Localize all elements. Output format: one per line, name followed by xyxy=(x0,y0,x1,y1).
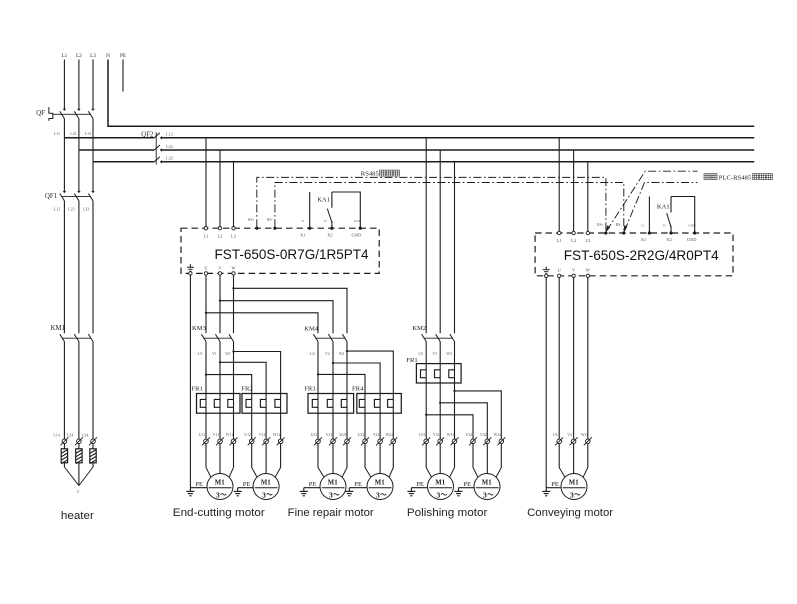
wire branch W to KM4 xyxy=(234,288,348,333)
thermal relay FR1 xyxy=(406,357,461,383)
svg-text:V4: V4 xyxy=(567,433,572,437)
motor M6 polishing M1 3-phase xyxy=(474,474,500,500)
svg-text:N: N xyxy=(106,53,110,59)
disconnect terminal W12 (end-cutting M2) xyxy=(273,433,285,445)
svg-text:V1: V1 xyxy=(212,352,217,356)
PE earth connection xyxy=(407,481,428,496)
svg-text:V2: V2 xyxy=(325,352,330,356)
junction polishing V to M6 branch xyxy=(439,402,441,404)
wire L2 feeder top xyxy=(78,60,80,111)
svg-text:M1: M1 xyxy=(569,480,579,487)
svg-text:W22: W22 xyxy=(386,433,393,437)
wires into motor M3 fine-repair xyxy=(318,444,347,478)
svg-text:V22: V22 xyxy=(373,433,380,437)
relay contact KA1 on U1 xyxy=(310,192,361,228)
svg-text:M1: M1 xyxy=(215,480,225,487)
contactor KM2 xyxy=(412,325,454,342)
wire QF to bus junctions xyxy=(64,119,93,162)
inverter U2 FST-650S-2R2G/4R0PT4 enclosure xyxy=(535,233,733,276)
svg-text:QF: QF xyxy=(36,110,45,117)
svg-text:PE: PE xyxy=(416,481,424,488)
motor M7 conveying M1 3-phase xyxy=(561,474,587,500)
svg-text:L12: L12 xyxy=(166,132,173,137)
svg-text:KM4: KM4 xyxy=(304,326,319,333)
terminal U1 PE with earth symbol xyxy=(187,264,194,275)
junction KM4-W to FR4 branch xyxy=(346,350,348,352)
label RS485 cable xyxy=(361,170,400,177)
terminal U1 L3 xyxy=(232,227,235,230)
wire FR3 outputs down xyxy=(318,413,347,439)
bus L2 right segment xyxy=(161,149,755,151)
terminal U2 V xyxy=(572,274,575,277)
svg-text:X1: X1 xyxy=(300,232,305,237)
svg-text:V31: V31 xyxy=(433,433,440,437)
disconnect terminal U21 (fine repair M3) xyxy=(311,433,322,445)
svg-text:U12: U12 xyxy=(244,433,251,437)
junction U1-W to KM4 branch xyxy=(232,287,234,289)
svg-text:L23: L23 xyxy=(68,206,74,211)
svg-text:PE: PE xyxy=(354,481,362,488)
wire branch KM3 V to FR2 xyxy=(220,362,266,393)
svg-text:W3: W3 xyxy=(446,352,452,356)
disconnect terminal V32 (polishing M6) xyxy=(480,433,491,445)
disconnect terminal V31 (polishing M5) xyxy=(433,433,444,445)
svg-text:W4: W4 xyxy=(581,433,587,437)
svg-text:W1: W1 xyxy=(225,352,231,356)
svg-text:V3: V3 xyxy=(432,352,437,356)
svg-text:U32: U32 xyxy=(466,433,473,437)
svg-text:L3: L3 xyxy=(90,53,96,59)
svg-text:V11: V11 xyxy=(213,433,219,437)
svg-text:L2: L2 xyxy=(76,53,82,59)
terminal U1 GND xyxy=(359,227,362,230)
junction KM3-U to FR2 branch xyxy=(205,373,207,375)
svg-text:QF2: QF2 xyxy=(141,131,154,138)
svg-text:L31: L31 xyxy=(85,131,91,136)
svg-text:W12: W12 xyxy=(273,433,280,437)
motor M2 end-cutting M1 3-phase xyxy=(253,474,279,500)
svg-text:L3: L3 xyxy=(585,238,591,243)
svg-text:V12: V12 xyxy=(259,433,266,437)
PE earth connection xyxy=(455,481,475,496)
terminal U1 L2 xyxy=(218,227,221,230)
svg-text:X2: X2 xyxy=(327,232,332,237)
svg-text:U11: U11 xyxy=(199,433,205,437)
disconnect terminal U32 (polishing M6) xyxy=(466,433,477,445)
svg-text:QF1: QF1 xyxy=(45,193,57,200)
wire bus L1 drop to U1 L1 xyxy=(205,138,207,228)
svg-text:M1: M1 xyxy=(328,480,338,487)
wire branch KM4 W to FR4 xyxy=(347,351,393,393)
thermal relay FR3 xyxy=(304,385,353,413)
terminal U1 W xyxy=(232,272,235,275)
svg-text:L2: L2 xyxy=(571,238,576,243)
svg-text:L14: L14 xyxy=(53,432,59,437)
wire bus L3 drop to U2 L3 xyxy=(587,162,589,233)
wire bus L1 drop to KM2 xyxy=(425,138,427,333)
wire U1 V output xyxy=(219,275,221,333)
svg-text:FST-650S-2R2G/4R0PT4: FST-650S-2R2G/4R0PT4 xyxy=(564,247,719,263)
wire bus L2 drop to U1 L2 xyxy=(219,150,221,228)
svg-text:W11: W11 xyxy=(226,433,233,437)
wire branch polishing U to motor M6 xyxy=(426,415,473,439)
wire branch polishing V to motor M6 xyxy=(440,403,487,439)
disconnect terminal V11 (end-cutting M1) xyxy=(213,433,224,445)
wire L1 to QF1 xyxy=(63,138,65,193)
svg-text:U: U xyxy=(77,490,80,494)
disconnect terminal U22 (fine repair M4) xyxy=(358,433,369,445)
bus L1 right segment xyxy=(161,137,755,139)
disconnect terminal W4 (conveying M7) xyxy=(581,433,592,445)
svg-text:M1: M1 xyxy=(482,480,492,487)
svg-text:L21: L21 xyxy=(70,131,76,136)
svg-text:Polishing motor: Polishing motor xyxy=(407,507,488,519)
arrow into U2 RS+ xyxy=(606,225,610,232)
svg-text:RS-: RS- xyxy=(616,223,622,227)
thermal relay FR2 xyxy=(241,385,287,413)
wire KM1 to heater connectors xyxy=(64,342,93,439)
junction polishing U to M6 branch xyxy=(425,414,427,416)
terminal U1 U xyxy=(204,272,207,275)
wire RS485 tap B to PLC (dash-dot) xyxy=(625,183,698,231)
svg-text:KA1: KA1 xyxy=(657,203,670,210)
disconnect terminal V21 (fine repair M3) xyxy=(326,433,337,445)
wire polishing FR outputs down xyxy=(426,383,454,439)
wire U2 outputs down xyxy=(559,278,588,439)
svg-text:RS+: RS+ xyxy=(248,218,254,222)
wire branch KM4 V to FR4 xyxy=(333,363,380,394)
wires into motor M2 end-cutting xyxy=(252,444,281,478)
svg-text:L13: L13 xyxy=(54,206,60,211)
wires into motor M7 conveying xyxy=(559,444,588,478)
svg-text:L11: L11 xyxy=(54,131,60,136)
disconnect terminal U4 (conveying M7) xyxy=(553,433,563,445)
svg-text:3: 3 xyxy=(570,491,574,500)
svg-text:L1: L1 xyxy=(557,238,562,243)
terminal U2 L2 xyxy=(572,231,575,234)
disconnect terminal W11 (end-cutting M1) xyxy=(226,433,238,445)
svg-text:M1: M1 xyxy=(261,480,271,487)
relay contact KA1 on U2 xyxy=(649,197,694,234)
junction KM3-V to FR2 branch xyxy=(219,361,221,363)
svg-text:3: 3 xyxy=(376,491,380,500)
wire FR2 outputs down xyxy=(252,413,281,439)
disconnect terminal W31 (polishing M5) xyxy=(447,433,459,445)
wire L2 to QF1 xyxy=(78,150,80,193)
disconnect terminal U11 (end-cutting M1) xyxy=(199,433,210,445)
svg-text:FR1: FR1 xyxy=(192,385,203,392)
terminal U2 RS- xyxy=(622,231,625,234)
wire U1 U output xyxy=(205,275,207,333)
wire branch KM4 U to FR4 xyxy=(318,374,365,393)
inverter U1 FST-650S-0R7G/1R5PT4 enclosure xyxy=(181,228,379,273)
wire branch KM3 U to FR2 xyxy=(206,375,252,394)
wire L1 feeder top xyxy=(63,60,65,111)
svg-text:V32: V32 xyxy=(480,433,487,437)
wire bus L2 drop to U2 L2 xyxy=(573,150,575,233)
PE earth connection xyxy=(300,481,321,496)
wire L3 feeder top xyxy=(92,60,94,111)
wire L3 to QF1 xyxy=(92,162,94,193)
circuit breaker QF xyxy=(36,107,94,121)
wires into motor M1 end-cutting xyxy=(206,444,234,478)
motor M3 fine-repair M1 3-phase xyxy=(320,474,346,500)
motor M5 polishing M1 3-phase xyxy=(428,474,454,500)
svg-text:Fine repair motor: Fine repair motor xyxy=(288,507,374,519)
svg-text:FST-650S-0R7G/1R5PT4: FST-650S-0R7G/1R5PT4 xyxy=(215,246,369,262)
svg-text:PE: PE xyxy=(309,481,317,488)
svg-text:L2: L2 xyxy=(218,233,223,238)
svg-text:PLC-RS485: PLC-RS485 xyxy=(719,174,752,181)
svg-text:RS-: RS- xyxy=(267,218,273,222)
disconnect terminal U12 (end-cutting M2) xyxy=(244,433,255,445)
svg-text:W21: W21 xyxy=(339,433,346,437)
svg-text:U1: U1 xyxy=(198,352,203,356)
disconnect terminal W21 (fine repair M3) xyxy=(339,433,351,445)
wire KM2 outputs to FR1 polishing xyxy=(426,342,454,364)
svg-text:W32: W32 xyxy=(494,433,501,437)
terminal U1 V xyxy=(218,272,221,275)
contactor KM3 xyxy=(192,325,234,342)
svg-text:End-cutting motor: End-cutting motor xyxy=(173,507,265,519)
svg-text:L32: L32 xyxy=(166,156,173,161)
PE earth connection xyxy=(234,481,254,496)
svg-text:FR4: FR4 xyxy=(352,385,364,392)
disconnect terminal V22 (fine repair M4) xyxy=(373,433,384,445)
terminal U2 X2 xyxy=(669,231,672,234)
disconnect terminal V4 (conveying M7) xyxy=(567,433,577,445)
svg-text:U31: U31 xyxy=(419,433,426,437)
circuit breaker QF2 xyxy=(141,131,162,164)
svg-text:U21: U21 xyxy=(311,433,318,437)
contactor KM4 xyxy=(304,326,347,342)
svg-text:FR2: FR2 xyxy=(241,385,252,392)
thermal relay FR4 xyxy=(352,385,401,413)
terminal U1 RS- xyxy=(273,227,276,230)
disconnect terminal U31 (polishing M5) xyxy=(419,433,430,445)
svg-text:RS+: RS+ xyxy=(597,223,603,227)
svg-text:M1: M1 xyxy=(375,480,385,487)
svg-text:GND: GND xyxy=(687,237,697,242)
terminal U2 RS+ xyxy=(604,231,607,234)
svg-text:31: 31 xyxy=(641,224,645,228)
bus L1 left segment xyxy=(64,137,154,139)
junction polishing W to M6 branch xyxy=(453,390,455,392)
wire RS485 A U1 to U2 (dash-dot) xyxy=(257,177,606,231)
svg-text:31: 31 xyxy=(301,219,305,223)
svg-text:L1: L1 xyxy=(62,53,68,59)
wire bus L3 drop to KM2 xyxy=(454,162,456,333)
svg-text:FR1: FR1 xyxy=(406,357,417,364)
svg-text:heater: heater xyxy=(61,510,94,522)
svg-text:FR3: FR3 xyxy=(304,385,316,392)
terminal U1 L1 xyxy=(204,227,207,230)
heater elements EH xyxy=(61,444,96,464)
svg-text:V21: V21 xyxy=(326,433,333,437)
terminal U2 L1 xyxy=(558,231,561,234)
svg-text:PE: PE xyxy=(195,481,203,488)
wire branch KM3 W to FR2 xyxy=(234,352,281,394)
svg-text:L22: L22 xyxy=(166,144,173,149)
bus L2 left segment xyxy=(79,149,154,151)
wire PE stub xyxy=(122,60,124,92)
wire KM4 outputs to FR3 xyxy=(318,342,347,394)
svg-text:RS485: RS485 xyxy=(361,170,380,177)
wire FR4 outputs down xyxy=(365,413,393,439)
svg-text:L34: L34 xyxy=(82,432,88,437)
wires into motor M6 polishing xyxy=(473,444,501,478)
bus L3 right segment xyxy=(161,161,755,163)
svg-text:Conveying motor: Conveying motor xyxy=(527,507,613,519)
wire bus L3 drop to U1 L3 xyxy=(233,162,235,228)
svg-text:L3: L3 xyxy=(231,233,237,238)
wire bus L2 drop to KM2 xyxy=(439,150,441,333)
wire heater star point xyxy=(64,463,93,486)
svg-text:PE: PE xyxy=(243,481,251,488)
svg-text:3: 3 xyxy=(262,491,266,500)
bus L3 left segment xyxy=(93,161,154,163)
svg-text:M1: M1 xyxy=(435,480,445,487)
svg-text:3: 3 xyxy=(436,491,440,500)
wire KM3 outputs to FR1 xyxy=(206,342,234,394)
wire RS485 B U1 to U2 (dash-dot) xyxy=(275,183,624,232)
svg-text:W2: W2 xyxy=(339,352,345,356)
svg-text:KM1: KM1 xyxy=(51,325,65,332)
svg-text:PE: PE xyxy=(551,481,559,488)
terminal U1 RS+ xyxy=(255,227,258,230)
wires into motor M4 fine-repair xyxy=(365,444,393,478)
svg-text:L33: L33 xyxy=(83,206,89,211)
svg-text:3: 3 xyxy=(216,491,220,500)
junction U1-V to KM4 branch xyxy=(219,300,221,302)
wires into motor M5 polishing xyxy=(426,444,454,478)
svg-text:U22: U22 xyxy=(358,433,365,437)
terminal U2 GND xyxy=(693,231,696,234)
thermal relay FR1 xyxy=(192,385,241,413)
wire U1 W output xyxy=(233,275,235,333)
svg-text:PE: PE xyxy=(120,53,126,59)
arrow into U2 RS- xyxy=(624,225,628,232)
junction KM4-V to FR4 branch xyxy=(332,362,334,364)
wire branch polishing W to motor M6 xyxy=(455,391,502,439)
terminal U2 W xyxy=(586,274,589,277)
svg-text:33: 33 xyxy=(323,219,327,223)
wire U2 PE down to conveying motor xyxy=(545,278,547,488)
wire QF1 to KM1 xyxy=(64,201,93,333)
wire FR1 outputs down xyxy=(206,413,234,439)
svg-text:L24: L24 xyxy=(67,432,73,437)
terminal U1 X2 xyxy=(330,227,333,230)
PE earth connection xyxy=(542,481,561,496)
svg-text:X1: X1 xyxy=(641,237,646,242)
svg-text:3: 3 xyxy=(329,491,333,500)
wire branch V to KM4 xyxy=(220,301,333,334)
junction U1-U to KM4 branch xyxy=(205,312,207,314)
svg-text:PE: PE xyxy=(464,481,472,488)
wire U1 PE down to end-cutting motor M1 xyxy=(189,275,191,488)
wire bus L1 drop to U2 L1 xyxy=(558,138,560,233)
wire RS485 tap A to PLC (dash-dot) xyxy=(607,171,698,231)
disconnect terminal W32 (polishing M6) xyxy=(494,433,506,445)
terminal U2 X1 xyxy=(648,231,651,234)
svg-text:KA1: KA1 xyxy=(317,196,330,203)
terminal U1 X1 xyxy=(308,227,311,230)
motor M4 fine-repair M1 3-phase xyxy=(367,474,393,500)
svg-text:35: 35 xyxy=(663,224,667,228)
junction KM4-U to FR4 branch xyxy=(317,373,319,375)
terminal U2 PE with earth symbol xyxy=(543,267,550,278)
PE earth connection xyxy=(345,481,367,496)
svg-text:U4: U4 xyxy=(553,433,558,437)
PE earth connection xyxy=(186,481,207,496)
terminal U2 L3 xyxy=(586,231,589,234)
svg-text:W31: W31 xyxy=(447,433,454,437)
heater disconnect terminals xyxy=(60,437,97,445)
svg-text:KM2: KM2 xyxy=(412,325,426,332)
svg-text:U2: U2 xyxy=(310,352,315,356)
svg-text:L1: L1 xyxy=(204,233,209,238)
terminal U2 U xyxy=(558,274,561,277)
disconnect terminal V12 (end-cutting M2) xyxy=(259,433,270,445)
junction KM3-W to FR2 branch xyxy=(232,350,234,352)
svg-text:3: 3 xyxy=(483,491,487,500)
disconnect terminal W22 (fine repair M4) xyxy=(386,433,398,445)
svg-text:KM3: KM3 xyxy=(192,325,207,332)
wire branch U to KM4 xyxy=(206,313,318,333)
svg-text:X2: X2 xyxy=(666,237,671,242)
svg-text:U3: U3 xyxy=(418,352,423,356)
circuit breaker QF1 xyxy=(45,191,94,201)
motor M1 end-cutting M1 3-phase xyxy=(207,474,233,500)
wire N feeder xyxy=(108,60,754,127)
label PLC RS485 port xyxy=(704,174,773,182)
svg-text:GND: GND xyxy=(352,232,362,237)
contactor KM1 xyxy=(51,325,93,342)
